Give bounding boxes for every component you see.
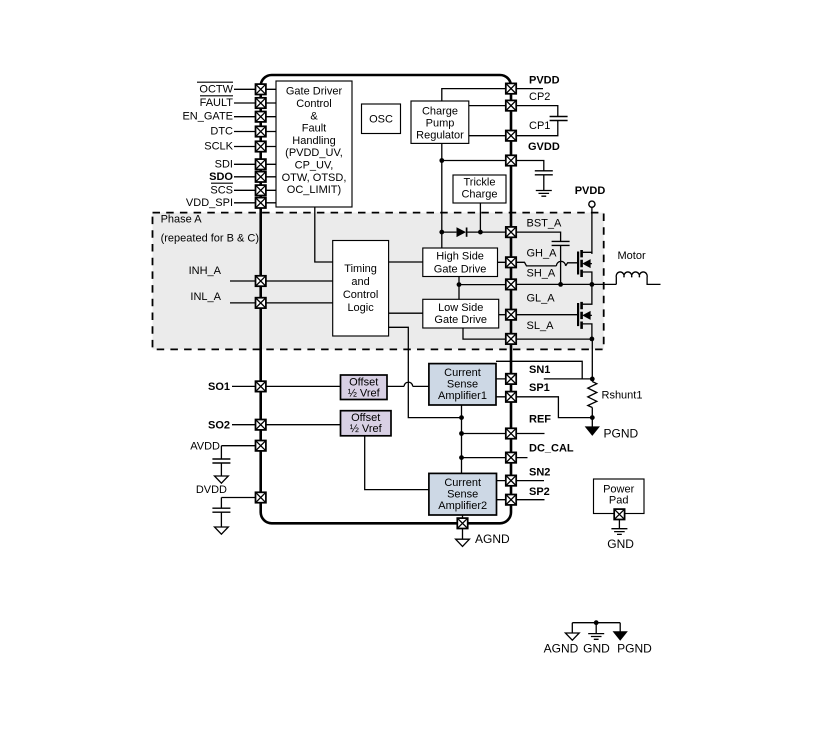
svg-text:CP2: CP2 [529,91,550,103]
svg-text:Charge: Charge [422,105,458,117]
svg-text:Offset: Offset [349,376,378,388]
svg-text:Control: Control [296,98,331,110]
svg-text:Phase A: Phase A [161,214,203,226]
svg-text:and: and [351,276,369,288]
svg-text:CP1: CP1 [529,120,550,132]
svg-text:SL_A: SL_A [527,320,555,332]
svg-text:AVDD: AVDD [190,441,220,453]
svg-text:DTC: DTC [210,126,233,138]
svg-text:SP1: SP1 [529,382,550,394]
svg-text:BST_A: BST_A [527,217,563,229]
svg-text:SO1: SO1 [208,381,230,393]
svg-text:Fault: Fault [302,123,326,135]
svg-text:Trickle: Trickle [464,176,496,188]
svg-text:SO2: SO2 [208,419,230,431]
svg-text:(PVDD_UV,: (PVDD_UV, [285,147,343,159]
svg-text:VDD_SPI: VDD_SPI [186,197,233,209]
svg-text:½ Vref: ½ Vref [348,388,381,400]
svg-text:CP_UV,: CP_UV, [295,160,334,172]
svg-text:Amplifier1: Amplifier1 [438,390,487,402]
svg-text:Control: Control [343,289,378,301]
svg-text:High Side: High Side [436,251,484,263]
svg-text:INH_A: INH_A [189,265,222,277]
svg-text:Sense: Sense [447,378,478,390]
svg-text:GND: GND [583,642,610,656]
svg-text:Current: Current [444,367,481,379]
svg-text:GL_A: GL_A [527,293,556,305]
svg-text:Handling: Handling [292,135,335,147]
svg-text:GVDD: GVDD [528,141,560,153]
svg-text:GH_A: GH_A [527,248,558,260]
svg-text:&: & [310,110,318,122]
svg-text:SN2: SN2 [529,467,550,479]
svg-text:OC_LIMIT): OC_LIMIT) [287,184,341,196]
svg-text:SP2: SP2 [529,486,550,498]
svg-text:SCLK: SCLK [204,141,233,153]
svg-text:Pad: Pad [609,495,629,507]
svg-text:SN1: SN1 [529,364,550,376]
svg-text:Gate Driver: Gate Driver [286,86,343,98]
svg-text:Charge: Charge [461,188,497,200]
svg-text:OCTW: OCTW [199,83,233,95]
svg-text:OTW, OTSD,: OTW, OTSD, [282,172,347,184]
svg-text:PVDD: PVDD [529,74,560,86]
svg-text:PGND: PGND [604,426,639,440]
svg-text:SDI: SDI [215,158,233,170]
svg-text:GND: GND [607,537,634,551]
svg-text:INL_A: INL_A [190,291,221,303]
svg-text:PVDD: PVDD [575,185,606,197]
svg-text:Amplifier2: Amplifier2 [438,500,487,512]
svg-text:Regulator: Regulator [416,129,464,141]
svg-text:Sense: Sense [447,489,478,501]
svg-text:SCS: SCS [210,184,233,196]
svg-text:DVDD: DVDD [196,484,227,496]
svg-text:SDO: SDO [209,171,233,183]
svg-text:Motor: Motor [618,250,646,262]
svg-text:REF: REF [529,414,551,426]
svg-text:Current: Current [444,477,481,489]
svg-text:(repeated for B & C): (repeated for B & C) [161,232,259,244]
svg-text:DC_CAL: DC_CAL [529,442,574,454]
svg-text:PGND: PGND [617,642,652,656]
svg-text:Gate Drive: Gate Drive [434,314,487,326]
svg-text:Rshunt1: Rshunt1 [602,389,643,401]
svg-text:SH_A: SH_A [527,267,556,279]
svg-text:Pump: Pump [426,117,455,129]
svg-text:OSC: OSC [369,114,393,126]
svg-text:Gate Drive: Gate Drive [434,264,487,276]
svg-text:FAULT: FAULT [200,97,234,109]
svg-text:AGND: AGND [475,532,510,546]
svg-text:Logic: Logic [347,302,374,314]
svg-text:Timing: Timing [344,263,377,275]
svg-text:AGND: AGND [544,642,579,656]
svg-text:Offset: Offset [351,412,380,424]
svg-text:EN_GATE: EN_GATE [182,111,233,123]
svg-text:½ Vref: ½ Vref [350,423,383,435]
svg-text:Low Side: Low Side [438,302,483,314]
